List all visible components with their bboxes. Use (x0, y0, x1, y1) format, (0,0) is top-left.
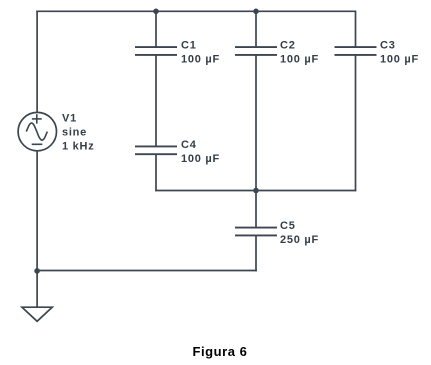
node junction top C2 (253, 9, 259, 15)
svg-text:1 kHz: 1 kHz (62, 141, 95, 153)
wire C2 top lead (255, 11, 257, 46)
wire middle rail (155, 190, 356, 192)
node junction bottom left (34, 268, 40, 274)
label C3 value (380, 40, 419, 66)
label V1 value (62, 113, 95, 153)
label C4 value (181, 139, 220, 165)
wire C5 top lead (255, 191, 257, 228)
capacitor C3 (335, 47, 377, 55)
wire C4 bottom lead (155, 155, 157, 192)
wire C5 bottom lead (255, 236, 257, 271)
node junction middle (253, 188, 259, 194)
wire C1 to C4 (155, 56, 157, 146)
wire C1 top lead (155, 11, 157, 46)
svg-text:C5: C5 (280, 220, 296, 232)
svg-text:C1: C1 (181, 40, 197, 52)
ground (22, 307, 52, 321)
wire C3 bottom lead (355, 56, 357, 192)
label C1 value (181, 40, 220, 66)
wire left branch lower (36, 151, 38, 271)
wire bottom rail (37, 270, 257, 272)
capacitor C5 (235, 228, 277, 236)
capacitor C2 (235, 47, 277, 55)
label C5 value (280, 220, 319, 246)
svg-text:100 µF: 100 µF (181, 153, 220, 165)
wire top rail (36, 10, 355, 12)
node junction top C1 (153, 9, 159, 15)
svg-text:C4: C4 (181, 139, 197, 151)
svg-text:Figura 6: Figura 6 (193, 344, 248, 359)
wire C2 bottom lead (255, 56, 257, 191)
voltage source V1 (18, 112, 56, 150)
svg-text:V1: V1 (62, 113, 77, 125)
wire C3 top lead (355, 11, 357, 47)
svg-text:250 µF: 250 µF (280, 234, 319, 246)
svg-text:100 µF: 100 µF (181, 54, 220, 66)
label C2 value (280, 40, 319, 66)
svg-text:C2: C2 (280, 40, 296, 52)
wire left branch upper (36, 11, 38, 113)
svg-text:100 µF: 100 µF (380, 54, 419, 66)
svg-text:sine: sine (62, 127, 87, 139)
wire ground lead (36, 271, 38, 307)
capacitor C1 (135, 47, 177, 55)
svg-text:100 µF: 100 µF (280, 54, 319, 66)
capacitor C4 (135, 146, 177, 154)
svg-text:C3: C3 (380, 40, 396, 52)
